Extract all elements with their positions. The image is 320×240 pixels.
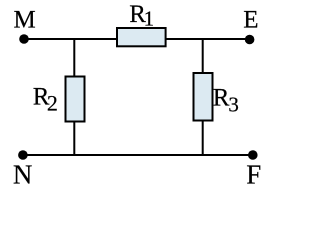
svg-text:N: N — [13, 159, 33, 189]
svg-text:M: M — [14, 7, 36, 34]
svg-text:2: 2 — [47, 91, 58, 116]
svg-text:3: 3 — [228, 93, 239, 117]
svg-text:F: F — [246, 159, 261, 189]
svg-text:1: 1 — [144, 7, 155, 31]
svg-text:E: E — [243, 7, 258, 34]
svg-text:R: R — [213, 84, 230, 111]
